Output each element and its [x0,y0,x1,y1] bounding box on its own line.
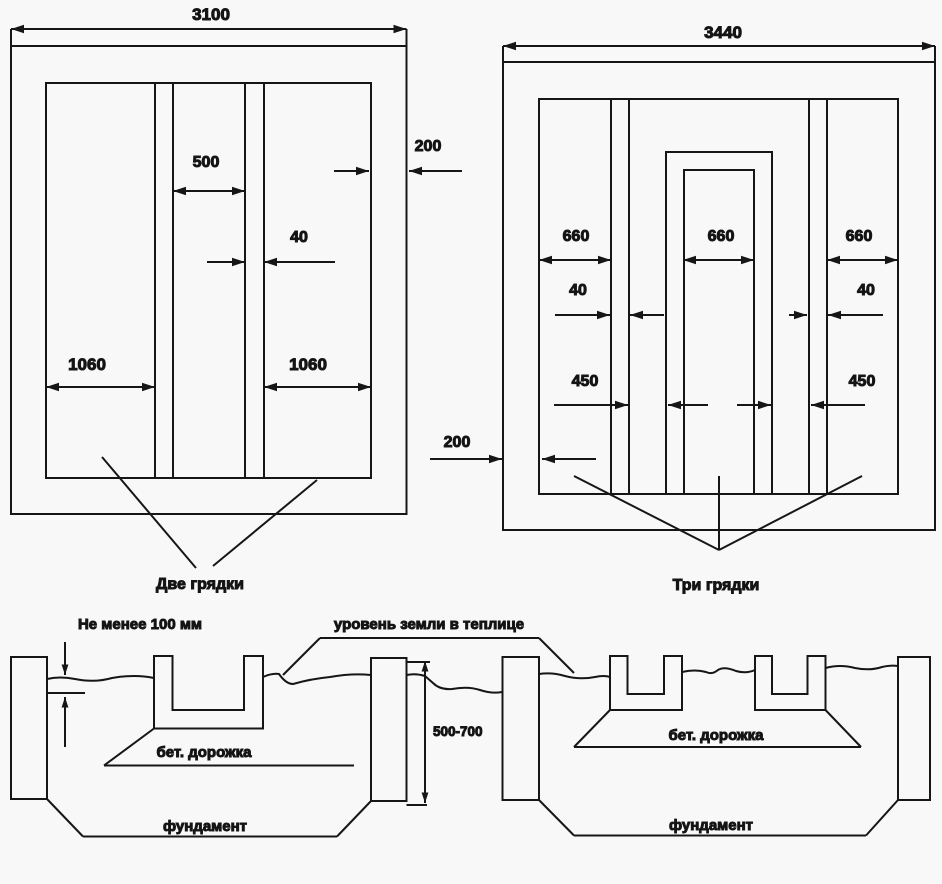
svg-text:3100: 3100 [192,5,230,24]
svg-text:Три грядки: Три грядки [673,577,760,594]
svg-text:450: 450 [572,373,599,390]
svg-text:500-700: 500-700 [433,724,483,739]
svg-text:1060: 1060 [289,355,327,374]
svg-text:Две грядки: Две грядки [156,576,244,593]
svg-text:3440: 3440 [704,23,742,42]
svg-text:660: 660 [708,228,735,245]
svg-text:200: 200 [444,434,471,451]
svg-text:бет. дорожка: бет. дорожка [668,727,764,744]
svg-text:660: 660 [563,228,590,245]
svg-text:40: 40 [290,229,308,246]
svg-text:1060: 1060 [68,355,106,374]
svg-text:200: 200 [415,138,442,155]
svg-text:40: 40 [569,282,587,299]
svg-text:бет. дорожка: бет. дорожка [156,744,252,761]
svg-text:500: 500 [193,154,220,171]
svg-text:Не менее 100 мм: Не менее 100 мм [78,616,202,633]
svg-text:фундамент: фундамент [669,817,753,834]
svg-text:450: 450 [849,373,876,390]
svg-text:40: 40 [857,282,875,299]
svg-text:660: 660 [846,228,873,245]
svg-text:фундамент: фундамент [163,818,247,835]
svg-text:уровень земли в теплице: уровень земли в теплице [334,616,524,633]
